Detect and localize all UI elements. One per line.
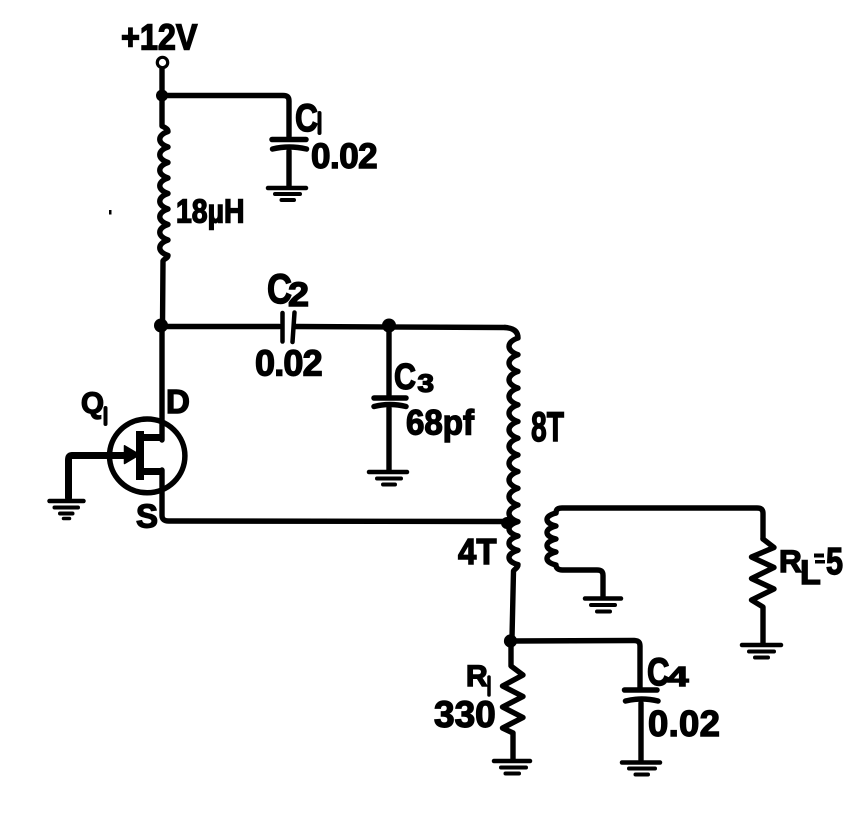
svg-text:L: L [800,554,821,592]
wire drain lead [159,327,164,441]
wire gate lead to ground [69,456,126,499]
node top-rail junction [156,90,168,102]
ground below C3 [369,472,407,485]
transformer secondary winding [547,513,603,596]
svg-text:4: 4 [668,661,690,692]
svg-text:68pf: 68pf [406,404,474,443]
node +12V supply terminal [157,57,167,67]
label R1 [466,660,489,695]
transistor Q1 JFET body [110,419,185,493]
inductor L1 18uH [160,96,168,327]
wire top rail to C1 [162,96,289,137]
wire rail to C2 left plate [162,324,280,329]
node drain junction [154,319,168,333]
svg-text:18µH: 18µH [176,193,245,230]
svg-text:R: R [466,660,488,693]
svg-text:2: 2 [288,276,309,314]
svg-text:5: 5 [826,541,843,583]
wire junction down to C3 [386,327,391,396]
svg-text:C: C [647,651,670,694]
label Q1 [81,387,106,424]
capacitor C4 [625,690,659,760]
svg-text:C: C [394,356,416,397]
node tap 4T junction [501,517,513,529]
svg-text:4T: 4T [458,531,497,572]
capacitor C2 [283,313,295,343]
label RL=5 [779,541,843,592]
svg-text:Q: Q [81,387,104,420]
svg-text:+12V: +12V [121,17,198,58]
node bottom junction [504,634,517,647]
transistor Q1 gate arrow [125,446,140,464]
node C3 junction [382,319,396,333]
svg-text:D: D [166,383,190,420]
svg-text:0.02: 0.02 [255,343,322,384]
svg-text:330: 330 [434,694,496,735]
capacitor C3 [374,398,406,470]
label C1 [295,97,320,140]
ground below RL [742,645,781,658]
svg-text:3: 3 [418,370,435,398]
wire junction to C4 [511,641,640,689]
ground at gate [50,501,84,519]
ground below secondary [585,599,621,612]
resistor RL load [752,539,775,643]
resistor R1 330 [503,641,524,759]
ground below R1 [494,761,530,774]
svg-text:0.02: 0.02 [648,703,720,744]
wire secondary top to RL [556,508,763,539]
scan speck [109,210,112,215]
wire source lead [139,468,163,475]
svg-text:R: R [779,543,802,579]
wire C2 to C3 junction and to 8T coil [296,327,506,328]
transistor Q1 channel bar [136,431,144,480]
svg-text:C: C [295,97,318,140]
svg-text:0.02: 0.02 [311,137,377,176]
svg-text:S: S [136,498,158,535]
inductor primary coil 8T + 4T tapped winding [505,328,518,639]
svg-text:8T: 8T [531,403,564,450]
ground below C1 [268,188,306,200]
capacitor C1 [272,140,307,187]
ground below C4 [622,763,660,775]
wire terminal to top rail [159,69,164,95]
